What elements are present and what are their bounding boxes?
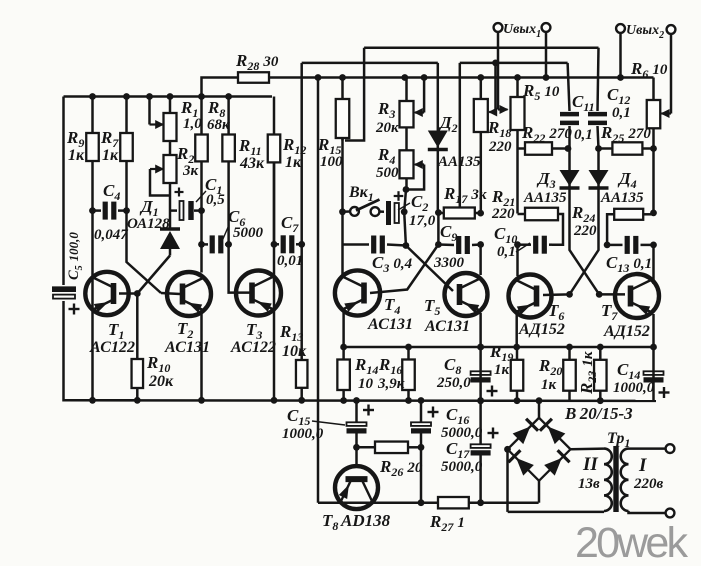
wire D3 col to T7 diagonal	[570, 248, 626, 294]
label C6	[228, 207, 245, 229]
wire R28 feedback line	[202, 78, 239, 97]
wire T8 bottom row right	[469, 501, 539, 504]
node bus / R3 wiper	[421, 74, 428, 81]
value R3 20k	[375, 120, 399, 136]
transistor T3	[236, 271, 281, 316]
node bus/R15	[339, 74, 346, 81]
type T4 AC131	[367, 316, 413, 333]
potentiometer R2	[164, 141, 177, 183]
node C7 left	[271, 241, 278, 248]
wire line B2 drop toward R17	[459, 63, 462, 207]
wire Uvyh2 left drop	[619, 33, 622, 78]
wire T7 collector column	[652, 245, 655, 284]
node bus / R3	[401, 74, 408, 81]
wire D4 col to T6 diagonal	[543, 248, 599, 295]
wire C10 right lead	[549, 243, 552, 246]
node T8 base / R26	[353, 444, 360, 451]
label R14	[354, 355, 378, 377]
node bus / Uvyh1 right	[543, 74, 550, 81]
wire bridge right to winding	[571, 447, 605, 450]
value R8 68k	[207, 117, 230, 133]
label winding II	[582, 454, 598, 475]
node R23 top	[597, 344, 604, 351]
terminal Uvyh1 right	[542, 23, 551, 32]
capacitor C5 electrolytic	[52, 289, 76, 298]
node T7 base X	[596, 291, 603, 298]
svg-text:1к: 1к	[494, 362, 510, 378]
transistor T7	[615, 274, 659, 318]
node T6 base X	[566, 291, 573, 298]
label R17	[443, 184, 487, 206]
node T2 emitter ground	[198, 397, 205, 404]
wire D1 anode down	[169, 249, 172, 256]
wire T8 base row rail	[317, 78, 320, 503]
svg-text:АС122: АС122	[230, 339, 276, 356]
terminal mains top	[666, 444, 675, 453]
node R24 right	[650, 210, 657, 217]
capacitor C7	[283, 235, 292, 253]
wire R15 col to switch	[341, 138, 344, 212]
wiper arrow of R6	[661, 109, 672, 118]
value R21 220	[491, 206, 515, 222]
terminal mains bottom	[666, 509, 675, 518]
label C14	[617, 360, 640, 382]
label D3	[536, 169, 556, 191]
wire T2 base link	[161, 293, 180, 294]
svg-text:АС131: АС131	[164, 339, 210, 356]
label R2	[176, 144, 194, 166]
value C9 3300	[433, 255, 465, 271]
node C6 right	[225, 241, 232, 248]
wire T4 collector column	[341, 245, 344, 279]
wire T2 emitter down	[200, 310, 203, 400]
label R18	[487, 118, 511, 140]
plus of C14	[659, 387, 670, 398]
wire R4 node to C2 node	[404, 190, 406, 212]
value C6 5000	[233, 225, 264, 241]
wire top line A	[364, 46, 598, 49]
wire bridge minus down	[538, 481, 541, 503]
node R10 ground	[134, 397, 141, 404]
label D1	[139, 197, 159, 219]
svg-text:АА135: АА135	[523, 190, 567, 206]
label T8	[322, 511, 338, 533]
svg-text:АА135: АА135	[437, 154, 481, 170]
switch Bk1 right contact	[371, 207, 380, 216]
wire C12 bottom	[598, 126, 599, 149]
svg-text:0,1: 0,1	[612, 105, 631, 121]
node C6 left	[198, 241, 205, 248]
wire D1 to T1 base diagonal	[137, 256, 170, 294]
wire C13 right lead	[641, 244, 654, 247]
wire C11 top	[568, 63, 570, 111]
wire T3 emitter column	[273, 244, 276, 400]
value C8 250,0	[436, 375, 471, 391]
node bus / R5	[514, 74, 521, 81]
label C15	[287, 406, 310, 428]
transformer winding I	[621, 449, 629, 511]
svg-text:АД152: АД152	[518, 321, 565, 338]
node bus / Uvyh2 left	[617, 74, 624, 81]
wire C12 top	[598, 48, 599, 111]
wire R2 wiper return	[150, 169, 170, 196]
node switch / R15 col	[339, 208, 346, 215]
label T1	[108, 320, 124, 342]
callout line C15	[312, 421, 345, 425]
label C8	[444, 355, 461, 377]
bridge diode bottom-right	[544, 450, 569, 475]
svg-text:250,0: 250,0	[436, 375, 471, 391]
value C1 0,5	[206, 192, 225, 208]
value C4 0,047	[94, 227, 128, 243]
label C10	[494, 224, 517, 246]
bridge diode bottom-left	[508, 450, 533, 475]
node T7 emitter bus	[650, 344, 657, 351]
label R19	[489, 342, 513, 364]
type T7 AD152	[603, 323, 650, 340]
node top bus / R9	[89, 93, 96, 100]
capacitor C2 electrolytic	[389, 201, 399, 225]
svg-text:0,01: 0,01	[277, 253, 303, 269]
wire C16 column	[420, 401, 423, 423]
resistor R10	[132, 294, 144, 401]
node bus/318 rail	[315, 74, 322, 81]
svg-text:5000: 5000	[233, 225, 264, 241]
value C15 1000,0	[282, 426, 324, 442]
capacitor C13	[627, 236, 636, 254]
value R14 10	[358, 376, 374, 392]
capacitor C16 electrolytic	[411, 422, 431, 431]
node C16 / R26	[418, 444, 425, 451]
value R11 43k	[239, 155, 265, 172]
wire C9 left lead	[438, 243, 454, 246]
value D2 AA135	[437, 154, 481, 170]
value C16 5000,0	[441, 425, 483, 441]
wire bridge plus to bus	[538, 401, 541, 418]
terminal Uvyh1 left	[494, 23, 503, 32]
wire Uvyh1 left drop to R5 wiper	[497, 32, 500, 110]
wire R21 right wrap to C10	[552, 214, 563, 245]
node bus / R1 top	[167, 93, 174, 100]
bridge diode top-right	[540, 419, 565, 444]
callout line C6	[219, 225, 229, 248]
type T6 AD152	[518, 321, 565, 338]
transistor T4	[335, 270, 380, 315]
svg-text:17,0: 17,0	[409, 213, 436, 229]
wire C4 left lead	[93, 209, 102, 212]
label V 20/15-3	[564, 404, 633, 423]
resistor R25	[599, 142, 654, 154]
resistor R9	[86, 97, 99, 211]
value 13v	[578, 476, 600, 492]
value R10 20k	[148, 373, 174, 390]
wiper arrow of R2	[150, 165, 164, 174]
transistor T8	[335, 466, 378, 509]
value C2 17,0	[409, 213, 436, 229]
potentiometer R18	[474, 78, 488, 214]
wire T1 base link	[119, 292, 137, 295]
svg-text:220: 220	[488, 139, 512, 155]
svg-text:20wek: 20wek	[575, 519, 689, 566]
resistor R24	[614, 209, 653, 220]
svg-text:II: II	[582, 454, 598, 475]
label R16	[378, 355, 402, 377]
wire T4 emitter down	[342, 309, 345, 347]
label T3	[246, 320, 262, 342]
label C13	[606, 253, 652, 275]
svg-text:500: 500	[376, 165, 399, 181]
wire C1 left lead	[170, 209, 177, 212]
value C17 5000,0	[441, 459, 483, 475]
node C13 right	[650, 242, 657, 249]
watermark 20wek	[575, 519, 689, 566]
node R25 left	[595, 145, 602, 152]
label R8	[207, 98, 225, 120]
wire top-left supply bus	[64, 95, 273, 98]
svg-text:АС122: АС122	[89, 339, 135, 356]
label R26 20	[379, 457, 423, 479]
wiper arrow of R5	[498, 105, 509, 114]
value C10 0,1	[497, 244, 516, 260]
label D4	[617, 169, 637, 191]
diode D2 AA135	[428, 63, 448, 213]
wire C3 left lead	[343, 243, 370, 246]
wire R4 wiper return	[407, 165, 425, 190]
value R4 500	[376, 165, 399, 181]
node T1 base	[134, 290, 141, 297]
label R24	[571, 203, 595, 225]
svg-text:1,0: 1,0	[183, 116, 202, 132]
label R21	[491, 187, 515, 209]
wire T3 collector column	[273, 162, 276, 244]
wire C6 right lead	[225, 243, 229, 246]
svg-text:3300: 3300	[433, 255, 465, 271]
wire emitter bus of output stages	[344, 346, 654, 349]
node R19 ground	[514, 397, 521, 404]
node C9 left	[435, 241, 442, 248]
transformer winding II	[604, 449, 612, 511]
diode D1 OA128	[160, 229, 180, 249]
wire C15 column	[355, 401, 358, 423]
capacitor C6	[212, 235, 221, 253]
node C3 right	[403, 242, 410, 249]
svg-text:220: 220	[573, 223, 597, 239]
label Uvyh2	[626, 23, 664, 41]
value R19 1k	[494, 362, 510, 378]
label C17	[446, 439, 470, 461]
wire R24 left wrap to C13	[607, 214, 614, 245]
plus at C1 node	[175, 188, 184, 197]
label R5	[522, 81, 560, 103]
svg-text:10к: 10к	[282, 343, 307, 360]
wiper arrow of R3	[414, 108, 424, 117]
value R9 1k	[68, 147, 85, 164]
svg-text:1000,0: 1000,0	[282, 426, 324, 442]
wire C3 right lead	[387, 245, 406, 246]
diode D4 AA135	[589, 149, 609, 249]
wire C1 right lead	[194, 209, 202, 212]
value R20 1k	[541, 377, 557, 393]
svg-text:АD138: АD138	[340, 511, 391, 530]
wire R4 bottom	[405, 178, 408, 189]
value R2 3k	[182, 163, 199, 179]
resistor R17	[438, 208, 480, 219]
type T2 AC131	[164, 339, 210, 356]
potentiometer R4	[400, 127, 414, 178]
wiper arrow of R4	[414, 160, 424, 169]
bridge rectifier outline	[508, 418, 571, 481]
label R15	[317, 135, 341, 157]
value R24 220	[573, 223, 597, 239]
label R27 1	[429, 512, 465, 534]
label T7	[601, 301, 618, 323]
svg-text:5000,0: 5000,0	[441, 459, 483, 475]
wire C2 right lead	[401, 211, 404, 214]
diode D3 AA135	[560, 149, 580, 249]
label C7	[281, 213, 299, 235]
capacitor C3	[374, 236, 383, 254]
wire T6 emitter down	[515, 311, 518, 347]
resistor R27	[438, 497, 469, 508]
svg-text:1000,0: 1000,0	[613, 380, 655, 396]
value D4 AA135	[600, 190, 644, 206]
type T5 AC131	[424, 318, 470, 335]
node C17 bottom row	[477, 499, 484, 506]
value 220v	[633, 476, 664, 492]
svg-text:АД152: АД152	[603, 323, 650, 340]
transistor T2	[167, 272, 211, 316]
node C1 right / T2 collector	[198, 207, 205, 214]
wire R1 wiper drop	[148, 97, 151, 125]
wire C9 left column	[437, 213, 440, 245]
node C2 right / R4 col	[401, 208, 408, 215]
label R7	[100, 128, 119, 150]
capacitor C15 electrolytic	[347, 422, 367, 431]
node C15 top	[353, 397, 360, 404]
wire bottom ground bus	[64, 399, 657, 402]
resistor R11	[222, 97, 235, 245]
plus of C2	[394, 191, 404, 201]
callout line C2	[398, 203, 410, 210]
resistor R22	[518, 142, 569, 155]
wire T4 base to C9 diagonal	[370, 245, 438, 294]
capacitor C10	[536, 236, 545, 254]
node C7 right	[298, 241, 305, 248]
label C3	[372, 253, 413, 275]
svg-text:I: I	[638, 455, 647, 476]
resistor R16	[402, 347, 415, 401]
svg-text:10: 10	[358, 376, 374, 392]
wire C15 to T8	[355, 433, 358, 467]
label R20	[538, 356, 562, 378]
node R20 top	[566, 344, 573, 351]
svg-text:220: 220	[491, 206, 515, 222]
value R15 100	[320, 154, 343, 170]
node T6 emitter bus	[513, 344, 520, 351]
potentiometer R1	[164, 97, 177, 142]
wire R7 col to T2 base diagonal	[127, 211, 162, 293]
label R1	[180, 98, 198, 120]
value C12 0,1	[612, 105, 631, 121]
plus of C17	[488, 428, 499, 439]
wire C6 to T3 base	[229, 244, 252, 292]
svg-text:68к: 68к	[207, 117, 230, 133]
wire R2 bottom to D1 node	[169, 183, 172, 228]
node R16 top	[405, 344, 412, 351]
svg-text:ОА128: ОА128	[127, 216, 170, 232]
wire C7 left lead	[274, 243, 279, 246]
value C7 0,01	[277, 253, 303, 269]
resistor R20	[563, 347, 576, 401]
node bus / R1 wiper	[146, 93, 153, 100]
callout line C1	[196, 191, 206, 202]
plus of C15	[363, 405, 374, 416]
svg-text:3,9к: 3,9к	[377, 376, 405, 392]
wire R15 bottom stub to line A	[341, 138, 344, 141]
resistor R28	[238, 72, 269, 83]
wire T6 collector column	[516, 245, 519, 276]
node C9 right	[477, 241, 484, 248]
switch Bk1 lever	[356, 200, 380, 211]
node R17 left	[435, 209, 442, 216]
node T1 ground	[89, 397, 96, 404]
svg-text:0,047: 0,047	[94, 227, 128, 243]
wire top line B segment 2	[460, 62, 568, 65]
svg-text:0,1: 0,1	[574, 127, 593, 143]
wire C3 to T5 base diagonal	[406, 246, 453, 292]
node C16 top	[418, 397, 425, 404]
wire line A left drop to R15 bottom	[345, 48, 364, 141]
node C17 top	[477, 398, 484, 405]
svg-text:1к: 1к	[68, 147, 85, 164]
node R25 right	[650, 145, 657, 152]
type T1 AC122	[89, 339, 135, 356]
label R25 270	[600, 123, 651, 145]
svg-text:АА135: АА135	[600, 190, 644, 206]
resistor R8	[195, 97, 208, 211]
wiper arrow of R1	[150, 120, 165, 129]
label R23 1k rotated	[577, 351, 599, 395]
wire T8 bottom row	[318, 501, 438, 504]
resistor R14	[337, 347, 350, 401]
wire C9 right lead	[472, 243, 481, 246]
label T5	[424, 296, 440, 318]
wire T5 collector column	[479, 245, 482, 276]
wire Uvyh1 right drop	[545, 32, 548, 78]
node R23 ground	[597, 397, 604, 404]
label C16	[446, 405, 469, 427]
wire C10 left lead	[518, 243, 532, 246]
capacitor C11	[560, 114, 579, 123]
node R22 right	[565, 145, 572, 152]
type T8 AD138	[340, 511, 391, 530]
node bus / R11	[225, 93, 232, 100]
wire C3 left column	[341, 212, 344, 245]
label C9	[440, 222, 457, 244]
svg-text:43к: 43к	[239, 155, 265, 172]
wire C11 bottom	[568, 126, 571, 149]
label T6	[548, 301, 564, 323]
node C8 top bus	[477, 344, 484, 351]
wire R18 wiper from line B	[494, 63, 497, 112]
label C2	[411, 192, 428, 214]
wire C16 lower column	[420, 433, 423, 503]
plus of C5	[69, 304, 80, 315]
wire bridge AC return row	[508, 511, 604, 514]
plus of C16	[428, 407, 439, 418]
wire top line B segment 1	[302, 62, 438, 65]
label D2	[438, 113, 458, 135]
